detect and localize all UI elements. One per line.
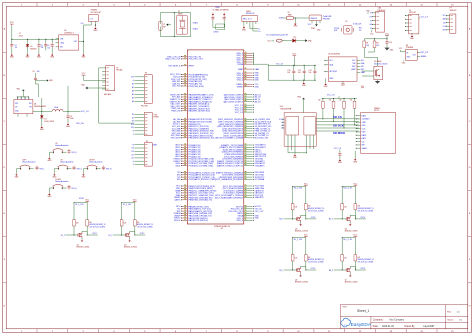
output wire OUT4 (355, 218, 366, 220)
ground below J4 (411, 33, 413, 35)
pins of Q5 (362, 70, 374, 72)
gate input wire R3_2 (284, 218, 297, 220)
wire VDD group bus (252, 53, 254, 64)
svg-text:VCC: VCC (353, 234, 358, 236)
gate input wire S1_2 (66, 234, 79, 236)
wire drain to output node (82, 231, 87, 235)
svg-text:TXS0104PWR: TXS0104PWR (280, 108, 292, 110)
capacitor C12 (314, 65, 316, 69)
frame column ticks top/bottom (36, 3, 38, 7)
connector J4 (409, 14, 419, 34)
svg-text:C10: C10 (287, 70, 290, 72)
svg-text:Sheet:: Sheet: (447, 319, 454, 322)
connector P3 (144, 75, 152, 104)
svg-text:2020-01-03: 2020-01-03 (382, 326, 394, 328)
svg-text:XTAL1: XTAL1 (193, 22, 199, 25)
svg-text:TPS3808: TPS3808 (406, 47, 413, 49)
wire top rail R7 R8 (364, 39, 387, 41)
svg-text:Q7: Q7 (345, 279, 347, 281)
svg-text:VDD: VDD (362, 125, 367, 127)
wire drain to output node (301, 266, 306, 270)
gate resistor of Q2 (120, 220, 123, 226)
svg-text:B2: B2 (132, 121, 134, 123)
IC U4 bottom pins (17, 114, 19, 117)
wire U5 output up to 5V rail (84, 25, 92, 42)
svg-text:10K: 10K (89, 222, 92, 224)
RTC U6 (328, 57, 357, 81)
IC U8 (406, 49, 418, 60)
svg-text:SHELL: SHELL (362, 148, 368, 150)
svg-text:SDD1: SDD1 (176, 165, 181, 167)
pull resistor of Q3 (304, 204, 307, 210)
svg-text:R5_2_1.8V: R5_2_1.8V (294, 239, 303, 241)
wire U4 to inductor (33, 110, 52, 112)
ground of LEFT (16, 169, 18, 174)
svg-text:VCC: VCC (133, 199, 138, 201)
svg-text:Q4: Q4 (345, 228, 347, 230)
svg-text:104: 104 (47, 47, 50, 49)
capacitor C14 (386, 40, 388, 42)
svg-text:SW: SW (29, 103, 32, 105)
svg-text:XTAL2_OSC_OUT: XTAL2_OSC_OUT (165, 58, 181, 61)
wire U5 ground branch (83, 42, 85, 54)
ground below C9 (67, 123, 69, 124)
gate resistor of Q3 (291, 204, 294, 210)
ground of OK (53, 169, 55, 174)
svg-text:BSS138_C19456: BSS138_C19456 (345, 282, 358, 284)
wire input rail (12, 38, 59, 40)
svg-text:USBLC6: USBLC6 (310, 18, 317, 20)
capacitor C9 (67, 111, 69, 114)
transistor Q2 (125, 233, 127, 236)
ground below level shifter (294, 150, 296, 154)
capacitor C10 (293, 65, 295, 69)
svg-text:S2_2: S2_2 (108, 235, 112, 237)
svg-text:G: G (469, 305, 471, 307)
svg-text:10K: 10K (295, 206, 298, 208)
svg-text:DAT1: DAT1 (362, 137, 367, 140)
svg-text:10K: 10K (376, 45, 379, 47)
wires below R6 R8 (364, 48, 377, 67)
svg-text:C5: C5 (41, 45, 43, 47)
svg-text:BSS138_MOSFET_N: BSS138_MOSFET_N (308, 208, 325, 210)
svg-text:B0: B0 (132, 114, 134, 116)
svg-text:Sheet_1: Sheet_1 (357, 309, 369, 313)
wire left branch (73, 203, 75, 220)
svg-text:TX: TX (370, 13, 372, 15)
svg-text:PB15(SPI2_MOSI/I2S2_SD): PB15(SPI2_MOSI/I2S2_SD) (189, 138, 215, 140)
svg-text:Your Company: Your Company (389, 319, 405, 322)
ground flag right of C8 (36, 80, 47, 82)
svg-text:P4-8: P4-8 (154, 114, 158, 116)
svg-text:E: E (29, 98, 30, 100)
svg-text:C9: C9 (70, 116, 72, 118)
svg-text:10K: 10K (124, 222, 127, 224)
svg-text:BSS138_MOSFET_N: BSS138_MOSFET_N (358, 259, 375, 261)
wire SD SCK (316, 124, 359, 126)
wire VCC rail (293, 237, 306, 239)
connector P6 power jack (88, 15, 98, 22)
svg-text:PROGM: PROGM (323, 18, 330, 20)
svg-text:32.768: 32.768 (334, 28, 339, 30)
svg-text:RX5: RX5 (177, 179, 181, 181)
wire resistor to gate (292, 210, 294, 219)
svg-text:TITLE:: TITLE: (342, 307, 347, 309)
wire VCC rail (342, 186, 355, 188)
pull resistor of Q6 (304, 255, 307, 261)
oscillator X2 (176, 16, 187, 35)
gate resistor of Q1 (73, 220, 76, 226)
svg-text:S2_2_1.8V: S2_2_1.8V (123, 204, 132, 206)
svg-text:SS5819: SS5819 (30, 48, 36, 50)
wire left branch (121, 203, 123, 220)
svg-text:R6_2_1.8V: R6_2_1.8V (343, 239, 352, 241)
svg-text:VCC_1.8: VCC_1.8 (421, 17, 428, 19)
wire left branch (292, 187, 294, 204)
LED D2 (292, 39, 295, 43)
svg-text:Button-Autodesk: Button-Autodesk (23, 161, 36, 164)
svg-text:VDD_6: VDD_6 (236, 220, 243, 222)
pins below U2 (311, 21, 313, 24)
wire VCC rail (122, 202, 135, 204)
level shifter U10 body (284, 113, 316, 147)
ground of UP (48, 152, 50, 157)
pins right of U6 (357, 59, 360, 61)
svg-text:10K: 10K (366, 45, 369, 47)
resistor R16 (343, 99, 345, 102)
wire SD D0 (316, 127, 359, 129)
svg-text:B10: B10 (131, 124, 134, 126)
svg-text:C11: C11 (131, 154, 134, 156)
wire resistor to gate (341, 261, 343, 270)
wire VCC to P2 (84, 79, 106, 81)
frame row ticks left/right (3, 51, 7, 53)
svg-text:S2-PB: S2-PB (79, 198, 84, 200)
TVS array U2 (309, 15, 322, 21)
svg-text:SD-TF: SD-TF (374, 110, 379, 112)
svg-text:Q6: Q6 (295, 279, 297, 281)
pull resistor of Q2 (133, 220, 136, 226)
svg-text:8MHZ: 8MHZ (178, 13, 182, 15)
wires below pull-ups (322, 108, 324, 119)
svg-text:BSS138_C19456: BSS138_C19456 (295, 231, 308, 233)
capacitor at DOWN (68, 185, 70, 187)
svg-text:KEY_L: KEY_L (40, 168, 45, 170)
capacitor C6 (51, 39, 53, 43)
svg-text:OUT6: OUT6 (360, 268, 365, 270)
svg-text:S1_2: S1_2 (61, 235, 65, 237)
svg-text:E: E (17, 98, 18, 100)
svg-text:SPI2_MOSI: SPI2_MOSI (171, 138, 181, 140)
wire SD D1 (316, 130, 359, 132)
svg-text:10K: 10K (318, 100, 321, 102)
svg-text:CH_SOT-23_C19456: CH_SOT-23_C19456 (308, 210, 324, 212)
ground below U6 (325, 78, 327, 82)
wire SD CS (316, 118, 359, 120)
ground below U2 (315, 24, 318, 26)
svg-text:Y1: Y1 (163, 24, 165, 26)
svg-text:10K: 10K (329, 100, 332, 102)
svg-text:GN: GN (370, 24, 372, 26)
svg-text:SENSE: SENSE (421, 56, 427, 58)
svg-text:P3: P3 (145, 73, 147, 75)
svg-text:32KIN: 32KIN (213, 32, 219, 34)
capacitor CX1 (212, 16, 214, 18)
svg-text:TX5/UART5: TX5/UART5 (255, 164, 265, 167)
capacitor C11 (303, 65, 305, 69)
ground below C7 (11, 53, 13, 54)
svg-text:RST: RST (443, 30, 446, 32)
svg-text:Button-Autodesk: Button-Autodesk (90, 161, 103, 164)
svg-text:SWCLK: SWCLK (174, 220, 181, 222)
svg-text:CH_SOT-23_C19456: CH_SOT-23_C19456 (358, 210, 374, 212)
capacitor at UP (68, 149, 70, 151)
wire VCC rail (293, 186, 306, 188)
title block outline (340, 305, 467, 329)
ground stub right of F1 (294, 18, 296, 22)
svg-text:KEY_O: KEY_O (77, 168, 83, 170)
svg-text:VREF-: VREF- (237, 86, 243, 88)
svg-text:10K: 10K (308, 206, 311, 208)
svg-text:104: 104 (309, 72, 312, 74)
ferrite bead FB1 (276, 39, 282, 42)
fuse F1 (284, 17, 287, 19)
svg-text:E: E (21, 98, 22, 100)
svg-text:(MCO/T1C1/USART1_CK)PA8: (MCO/T1C1/USART1_CK)PA8 (215, 137, 244, 140)
wire decoupling bottom rail (268, 79, 316, 81)
gate resistor of Q6 (291, 255, 294, 261)
svg-text:SD CS: SD CS (333, 115, 342, 119)
transistor Q6 (296, 268, 298, 271)
svg-text:B1: B1 (132, 117, 134, 119)
ground of Q6 stage (300, 273, 302, 274)
ground flag after LED (305, 39, 307, 42)
svg-text:S1_2_1.8V: S1_2_1.8V (75, 204, 84, 206)
svg-text:KEY-AD: KEY-AD (116, 69, 123, 72)
svg-text:SD MISO: SD MISO (333, 131, 346, 135)
svg-text:C8: C8 (32, 71, 34, 73)
svg-text:RX: RX (370, 16, 372, 18)
pull resistor of Q1 (86, 220, 89, 226)
svg-text:GND: GND (255, 218, 260, 220)
svg-text:EasyEDA: EasyEDA (351, 322, 372, 328)
transistor Q4 (345, 217, 347, 220)
pins of U5 (56, 38, 59, 40)
svg-text:Button-Autodesk: Button-Autodesk (55, 144, 68, 147)
pull resistor of Q4 (354, 204, 357, 210)
svg-text:Rev:: Rev: (447, 312, 452, 314)
svg-text:OUT4: OUT4 (360, 217, 365, 219)
wire pull resistor to drain (305, 261, 307, 270)
svg-text:C6: C6 (15, 45, 17, 47)
svg-text:VCC: VCC (304, 183, 309, 185)
transistor Q3 (296, 217, 298, 220)
svg-text:VDDA: VDDA (237, 63, 243, 66)
svg-text:CH_SOT-23_C19456: CH_SOT-23_C19456 (137, 226, 153, 228)
svg-text:10uH: 10uH (54, 107, 59, 109)
ground for card shell (354, 151, 356, 158)
capacitor at RIGHT (103, 166, 105, 168)
svg-text:CH_SOT-23_C19456: CH_SOT-23_C19456 (89, 226, 105, 228)
svg-text:VSS_4: VSS_4 (237, 80, 244, 82)
wire resistor to gate (73, 226, 75, 235)
resistor R8 (373, 41, 376, 48)
wire SD MOSI (316, 121, 359, 123)
ground flag CX2 (223, 13, 225, 15)
wire drain to output node (130, 231, 135, 235)
ground of DOWN (48, 188, 50, 193)
ground below C14 (386, 45, 388, 48)
svg-text:LED_PD2: LED_PD2 (172, 86, 180, 88)
svg-text:2.8: 2.8 (359, 30, 361, 32)
svg-text:PRGM: PRGM (154, 117, 160, 119)
ground below P6 (94, 27, 96, 28)
resistor R14 (322, 99, 324, 102)
svg-text:R3_2: R3_2 (279, 219, 283, 221)
output wire OUT5 (306, 269, 317, 271)
svg-text:LD2980-3.3: LD2980-3.3 (64, 32, 74, 34)
wire VDD to decoupling rail (253, 64, 268, 65)
wire USB shield to ground (243, 24, 245, 26)
svg-text:OUT2: OUT2 (140, 233, 145, 235)
svg-text:GND: GND (255, 86, 260, 88)
svg-text:VCC: VCC (304, 234, 309, 236)
wire crystal loop (160, 13, 190, 37)
output wire OUT1 (87, 234, 98, 236)
resistor R6 (363, 41, 366, 48)
svg-text:104: 104 (41, 47, 44, 49)
connector P2 (106, 66, 115, 91)
svg-text:(I2C1_SMBA/SPI3_MOSI)PB5: (I2C1_SMBA/SPI3_MOSI)PB5 (215, 178, 244, 181)
svg-text:mayur2087: mayur2087 (423, 325, 435, 328)
svg-text:MICRO-5P: MICRO-5P (246, 13, 255, 15)
svg-text:U1: U1 (221, 228, 224, 230)
svg-text:FB: FB (29, 107, 31, 109)
ground below U5 output node (83, 53, 85, 54)
wire from above into node (41, 98, 43, 111)
svg-text:B11: B11 (131, 127, 134, 129)
svg-text:RST_NRST_K: RST_NRST_K (169, 66, 182, 68)
gate input wire R6_2 (334, 269, 347, 271)
svg-text:OUT5: OUT5 (311, 268, 316, 270)
gate input wire S2_2 (113, 234, 126, 236)
wire VCC to rail (11, 26, 13, 40)
svg-text:GND: GND (255, 80, 260, 82)
resistor R17 (354, 99, 356, 102)
svg-text:PD1-OSC_OUT: PD1-OSC_OUT (189, 59, 204, 61)
gate input wire R4_2 (334, 218, 347, 220)
svg-text:PB9(TIM4_CH4/CAN_TX): PB9(TIM4_CH4/CAN_TX) (189, 199, 213, 202)
level shifter section A (286, 117, 299, 135)
IC U4 top pins (16, 97, 18, 100)
capacitor CX2 (223, 16, 225, 18)
svg-text:OSC_OUT: OSC_OUT (255, 211, 265, 213)
IC U4 (14, 100, 33, 114)
ground below C6 (51, 53, 53, 54)
svg-text:10K: 10K (344, 257, 347, 259)
svg-text:TX: TX (132, 144, 134, 146)
svg-text:10K: 10K (357, 257, 360, 259)
diode D1 (27, 39, 29, 44)
wire pull resistor to drain (354, 261, 356, 270)
svg-text:BSS138_MOSFET_N: BSS138_MOSFET_N (137, 224, 154, 226)
wire left branch (292, 238, 294, 255)
connector USB1 (242, 16, 258, 22)
ground flag at oscillator (166, 23, 168, 26)
svg-text:VBAT: VBAT (238, 68, 244, 71)
svg-text:E: E (25, 98, 26, 100)
svg-text:Drawn By:: Drawn By: (405, 325, 416, 328)
svg-text:RX: RX (132, 148, 134, 150)
svg-text:Button-Autodesk: Button-Autodesk (60, 161, 73, 164)
svg-text:VB D- D+ G: VB D- D+ G (243, 19, 252, 21)
svg-text:SWD-4P: SWD-4P (450, 10, 458, 12)
wire drain to output node (350, 215, 355, 219)
svg-text:P3-8 SB: P3-8 SB (141, 105, 148, 107)
svg-text:D+: D+ (258, 31, 260, 33)
pull resistor of Q7 (354, 255, 357, 261)
svg-text:SDA2/RX3: SDA2/RX3 (255, 196, 264, 199)
svg-text:DF11-8P: DF11-8P (409, 12, 417, 14)
svg-text:N.B: N.B (359, 27, 362, 29)
connector P4 (144, 112, 152, 135)
wire left branch (341, 238, 343, 255)
ground below U8 (403, 60, 405, 61)
svg-text:C4: C4 (47, 45, 49, 47)
svg-text:VCC: VCC (353, 183, 358, 185)
diode D4 (41, 111, 43, 115)
svg-text:KEY_U: KEY_U (72, 152, 78, 154)
svg-text:Q1: Q1 (77, 244, 79, 246)
wire drain to output node (301, 215, 306, 219)
svg-text:CH_SOT-23_C19456: CH_SOT-23_C19456 (358, 261, 374, 263)
svg-text:10v: 10v (15, 47, 18, 49)
wire right branch (354, 238, 356, 255)
svg-text:RCJ-011-4P: RCJ-011-4P (91, 12, 102, 14)
wire pull resistor to drain (86, 226, 88, 235)
svg-text:DAT2: DAT2 (362, 114, 367, 117)
svg-text:BSS138_C19456: BSS138_C19456 (345, 231, 358, 233)
svg-text:C12: C12 (309, 70, 312, 72)
svg-text:I2C1/SMBA: I2C1/SMBA (255, 178, 265, 181)
pins right of U8 (417, 51, 420, 53)
output wire OUT2 (135, 234, 146, 236)
svg-text:PD2(UART5_RX/SDIO_CMD): PD2(UART5_RX/SDIO_CMD) (189, 178, 216, 181)
svg-text:104: 104 (287, 72, 290, 74)
ground of Q1 stage (81, 238, 83, 239)
pins below U10 (287, 135, 289, 150)
svg-text:Company:: Company: (373, 320, 384, 322)
wire right branch (134, 203, 136, 220)
svg-text:10K: 10K (76, 222, 79, 224)
svg-text:Button-Autodesk: Button-Autodesk (55, 180, 68, 183)
svg-text:KHZ: KHZ (334, 30, 337, 32)
svg-text:KEY-AD5: KEY-AD5 (104, 93, 111, 96)
svg-text:PD2(TIM3_ETR): PD2(TIM3_ETR) (189, 86, 204, 88)
svg-text:Q5 S8050: Q5 S8050 (374, 61, 381, 63)
svg-text:R6_2: R6_2 (329, 270, 333, 272)
svg-text:47uF: 47uF (19, 35, 23, 37)
svg-text:BSS138_MOSFET_N: BSS138_MOSFET_N (358, 208, 375, 210)
pins left of U6 (325, 59, 328, 61)
gate resistor of Q4 (341, 204, 344, 210)
wire pull resistor to drain (305, 210, 307, 219)
capacitor C13 (339, 150, 341, 153)
connector CN4 (376, 11, 385, 32)
svg-text:104: 104 (37, 71, 40, 73)
svg-text:OUT1: OUT1 (92, 233, 97, 235)
svg-text:3V3: 3V3 (131, 77, 134, 79)
